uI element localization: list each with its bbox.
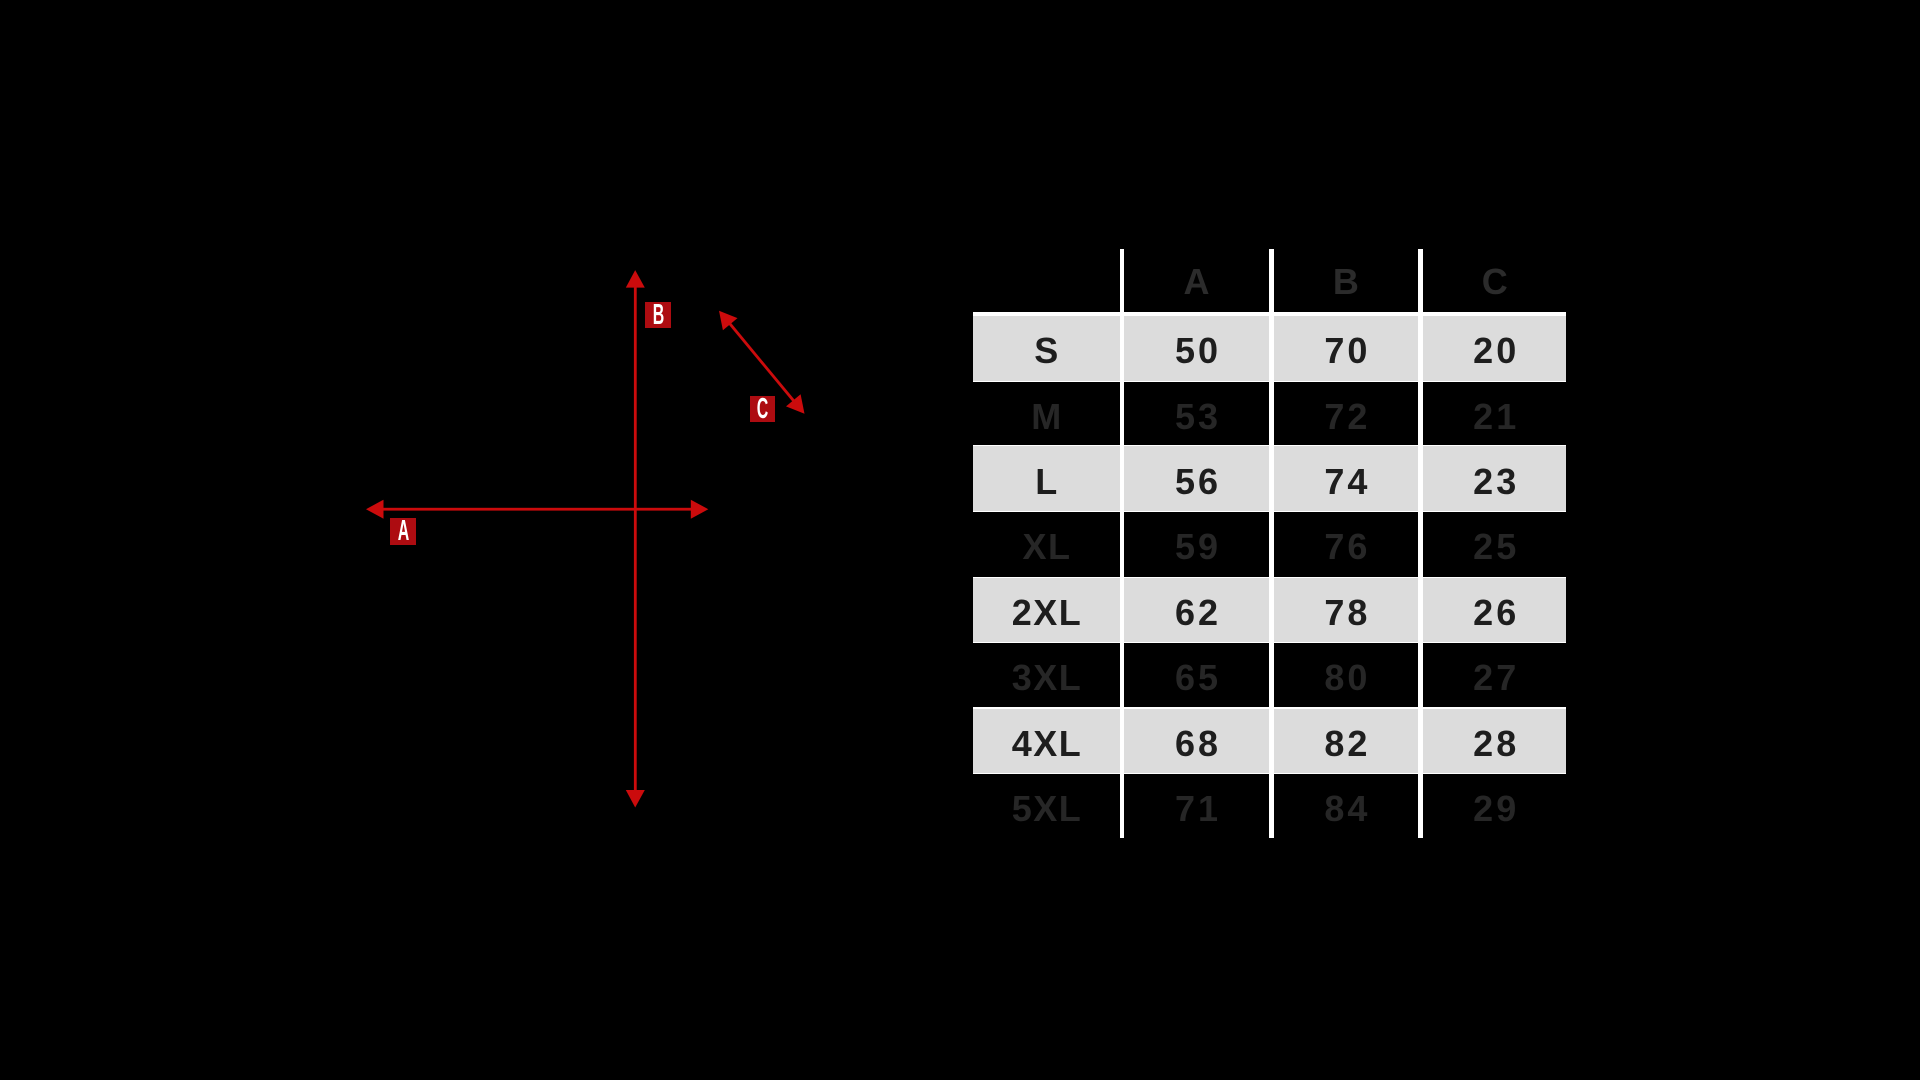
label box B [645,302,671,328]
row S [973,316,1120,381]
product image black rectangle [248,237,1024,845]
header row [973,249,1120,312]
row 4XL [973,709,1120,773]
row 3XL [973,643,1120,707]
label box C [750,396,775,422]
row 2XL [973,578,1120,642]
horizontal A arrow [380,508,694,511]
vertical B arrow [634,284,637,794]
label box A [390,518,416,545]
size table [973,249,1566,838]
diagonal C arrow [729,322,795,402]
row XL [973,512,1120,577]
row L [973,446,1120,511]
row M [973,382,1120,445]
row 5XL [973,774,1120,838]
